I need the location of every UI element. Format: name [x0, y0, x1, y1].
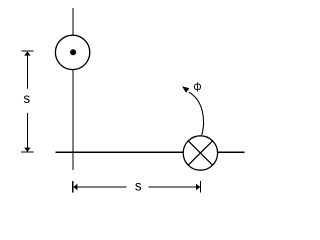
svg-text:s: s [23, 91, 30, 106]
svg-text:s: s [135, 178, 142, 193]
conductor W1 (current out of page, dot symbol) [55, 35, 89, 69]
dimension arrow s (vertical, left) [21, 51, 35, 152]
svg-text:Φ: Φ [193, 79, 201, 95]
wire vertical lead of conductor W1 [72, 8, 74, 170]
wire horizontal lead of conductor W2 [56, 151, 245, 153]
dimension arrow s (horizontal, bottom) [73, 178, 201, 193]
conductor W2 (current into page, cross symbol) [183, 136, 217, 170]
rotation arrow phi (curved) [182, 86, 204, 135]
